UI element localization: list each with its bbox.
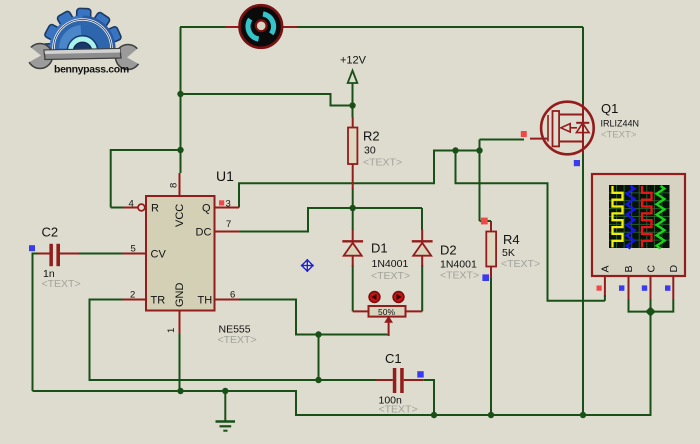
junction R4/bus [488, 412, 494, 418]
svg-text:<TEXT>: <TEXT> [42, 278, 81, 290]
marker C1 blue [417, 371, 423, 377]
svg-text:R: R [151, 203, 159, 215]
junction ground-symbol/bus [222, 388, 228, 394]
wrench [24, 42, 146, 70]
svg-text:R2: R2 [363, 129, 380, 144]
op-amp/timer U1 NE555 [123, 168, 257, 346]
wire Q1 source to ground bus [582, 153, 584, 415]
marker scope A red [597, 286, 602, 291]
wire Q1 drain from motor [582, 27, 584, 104]
wire gate vertical to R4 [479, 140, 481, 222]
svg-text:6: 6 [230, 290, 235, 301]
svg-text:<TEXT>: <TEXT> [501, 258, 540, 270]
potentiometer RV1 50% [353, 306, 423, 336]
junction VCC/pin4 [177, 147, 183, 153]
svg-text:<TEXT>: <TEXT> [440, 270, 479, 282]
wire scope B to junction [629, 299, 651, 312]
svg-text:5: 5 [131, 244, 136, 255]
svg-text:U1: U1 [216, 168, 234, 184]
marker C2 blue [29, 245, 35, 251]
svg-text:Q1: Q1 [601, 101, 618, 116]
marker scope B blue [619, 285, 624, 290]
wire U1 pin7 DC to diode node [240, 208, 422, 232]
junction pin1/bus [177, 388, 183, 394]
svg-text:1N4001: 1N4001 [372, 258, 409, 270]
motor [239, 5, 282, 48]
wire D1 bottom to pot left [352, 265, 354, 311]
svg-text:3: 3 [226, 199, 231, 210]
marker scope D blue [665, 285, 670, 290]
ground [216, 391, 236, 431]
wire D2 bottom to pot right [421, 265, 423, 311]
wire C2 left down [33, 254, 39, 392]
wire U1 pin5 CV to C2 [79, 253, 123, 255]
svg-text:TR: TR [151, 295, 166, 307]
marker scope C blue [642, 285, 647, 290]
wire D1 top [352, 208, 354, 230]
svg-text:<TEXT>: <TEXT> [218, 334, 257, 346]
diode D2 [412, 230, 479, 282]
svg-text:bennypass.com: bennypass.com [54, 64, 129, 76]
svg-text:2: 2 [130, 290, 135, 301]
svg-text:GND: GND [174, 283, 186, 308]
svg-text:D: D [668, 265, 680, 273]
pot button right [393, 292, 404, 303]
wire D2 top [421, 208, 423, 230]
wire VCC vertical to U1 pin 8 [180, 27, 182, 173]
junction gate/scopeA [452, 147, 458, 153]
svg-text:Q: Q [202, 203, 211, 215]
svg-text:DC: DC [196, 227, 212, 239]
svg-text:1: 1 [166, 328, 177, 333]
marker R4 top red [481, 218, 488, 225]
junction VCC/+12V [177, 91, 183, 97]
transistor Q1 IRLZ44N mosfet [530, 101, 639, 154]
svg-text:CV: CV [151, 249, 167, 261]
wire ground bus [33, 312, 651, 415]
wire R4 bottom to ground bus [490, 277, 492, 415]
svg-text:C: C [646, 265, 658, 273]
marker Q1 blue [574, 160, 580, 166]
svg-text:30: 30 [364, 145, 376, 157]
svg-text:<TEXT>: <TEXT> [371, 270, 410, 282]
capacitor C2 [38, 225, 81, 291]
svg-text:D2: D2 [440, 243, 457, 258]
svg-text:B: B [623, 265, 635, 272]
junction TH/C1 [315, 331, 321, 337]
diode D1 [342, 230, 410, 283]
svg-text:C1: C1 [385, 351, 402, 366]
svg-text:C2: C2 [42, 225, 59, 240]
wire U1 pin2 TR to C1 left [90, 300, 377, 381]
marker gate red [521, 131, 527, 137]
wire scope C down to bus [650, 299, 652, 415]
wire motor stubs [225, 26, 297, 28]
oscilloscope [592, 174, 685, 301]
svg-text:50%: 50% [378, 307, 395, 317]
svg-text:TH: TH [198, 295, 213, 307]
capacitor C1 [376, 351, 424, 416]
wire U1 pin6 TH to pot wiper [239, 300, 388, 335]
junction R2/D1/pin7 [350, 205, 356, 211]
power +12V terminal [340, 55, 367, 106]
svg-text:D1: D1 [371, 241, 388, 256]
resistor R2 [348, 117, 402, 189]
wire R2 top [352, 106, 354, 118]
svg-text:8: 8 [169, 183, 180, 188]
svg-text:R4: R4 [503, 232, 520, 247]
junction C1/bus [431, 412, 437, 418]
wire TH node down to C1 node [318, 335, 320, 381]
junction gate/R4 [476, 147, 482, 153]
svg-text:<TEXT>: <TEXT> [379, 404, 418, 416]
svg-text:+12V: +12V [340, 55, 367, 67]
wire R2 bottom to node [352, 188, 354, 208]
svg-text:<TEXT>: <TEXT> [601, 130, 637, 141]
node marker origin crosshair [301, 259, 314, 272]
svg-text:7: 7 [226, 219, 231, 230]
marker R4 bottom blue [482, 274, 489, 281]
pot button left [369, 292, 380, 303]
wire C1 right to ground bus [424, 380, 434, 415]
wire U1 pin4 R loop to VCC [111, 150, 181, 208]
wire U1 pin1 GND to bus [179, 334, 181, 391]
marker pin3 red [219, 200, 224, 205]
wire U1 pin3 Q to gate node [239, 151, 480, 208]
wire R4 top jog [480, 220, 492, 222]
svg-text:<TEXT>: <TEXT> [363, 157, 402, 169]
svg-text:A: A [600, 265, 612, 272]
wire gate horizontal to Q1 [480, 139, 525, 141]
junction Q1 source/bus [580, 412, 586, 418]
junction +12V/R2 [349, 102, 355, 108]
wire +12V branch [181, 94, 353, 106]
junction TR/C1 [315, 377, 321, 383]
wire top rail motor [180, 26, 583, 28]
logo bennypass.com [24, 8, 146, 81]
wire scope D to junction [651, 299, 674, 312]
resistor R4 [486, 221, 540, 278]
wire node to scope channel A [456, 151, 605, 301]
svg-text:4: 4 [129, 199, 134, 210]
svg-text:VCC: VCC [174, 204, 186, 227]
svg-text:IRLIZ44N: IRLIZ44N [601, 119, 640, 129]
junction scope BCD diamond [645, 306, 655, 316]
